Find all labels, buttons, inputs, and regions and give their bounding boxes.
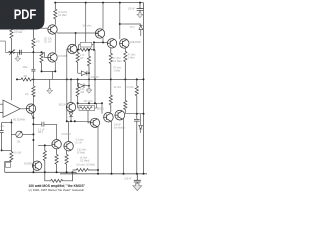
svg-text:BD139: BD139 — [59, 104, 67, 106]
svg-text:220 ohm: 220 ohm — [84, 101, 93, 103]
wire y113 output node — [125, 113, 144, 115]
wire gnd stub under pot — [17, 52, 19, 57]
wire Q10 emitter down — [111, 121, 113, 174]
svg-text:4.7k: 4.7k — [80, 55, 85, 57]
svg-text:MJE15030: MJE15030 — [130, 42, 142, 44]
svg-text:100p: 100p — [23, 67, 29, 69]
transistor Q3 — [107, 39, 116, 48]
node 77 49 — [77, 49, 79, 51]
svg-text:2.2 K ohm: 2.2 K ohm — [14, 29, 25, 31]
node 95 103 — [94, 102, 96, 104]
transistor Q7 — [26, 104, 35, 113]
node top rail junction 4 — [119, 2, 121, 4]
resistor R5 feedback 2k2 — [21, 78, 32, 81]
node 71 121 — [70, 120, 72, 122]
inductor L1 on left bus — [32, 86, 35, 97]
svg-text:1/2 Watt: 1/2 Watt — [14, 31, 23, 34]
transistor Q11 output — [115, 110, 125, 120]
node 44 145 — [44, 144, 46, 146]
wire x102 to Q10 — [101, 103, 103, 113]
capacitor C4 output — [134, 114, 140, 174]
ground bottom — [133, 183, 142, 190]
node mid rail x136 — [136, 78, 138, 80]
svg-text:2k2: 2k2 — [24, 76, 28, 78]
capacitor C2 100p — [31, 69, 35, 71]
wire Q11 emitter down — [123, 119, 125, 174]
node 55 71 — [54, 70, 56, 72]
diode D2 — [78, 79, 89, 88]
wire y121 — [67, 120, 91, 122]
node rail 98b — [97, 173, 99, 175]
wire right edge rail — [143, 3, 145, 174]
node 136 113 — [136, 113, 138, 115]
node rail 56 — [56, 171, 58, 173]
node left bus 140 — [32, 139, 34, 141]
resistor R3 2.2K input — [10, 27, 13, 52]
node mid rail x143 — [143, 78, 145, 80]
box R13 — [79, 106, 95, 111]
svg-text:DC 1W: DC 1W — [44, 41, 52, 43]
capacitor C1 input coupling — [19, 50, 21, 55]
svg-text:47K: 47K — [36, 42, 41, 44]
PDF badge — [0, 0, 45, 30]
node R4 top — [41, 51, 43, 53]
transistor Q1 — [48, 25, 57, 34]
ground x49 — [47, 89, 53, 94]
wire bottom rail step — [75, 172, 77, 174]
wire x95 down — [94, 50, 96, 104]
speaker box — [5, 162, 12, 173]
transistor Q12 — [52, 140, 61, 149]
transistor Q5 — [68, 44, 77, 53]
svg-text:1N4148: 1N4148 — [91, 77, 100, 79]
node 94 49 — [93, 49, 95, 51]
node top rail junction 5 — [139, 2, 141, 4]
wire Q9 emitter down — [97, 127, 99, 174]
wire Q1 emitter down — [54, 34, 56, 53]
wire Q7 down stub — [31, 113, 33, 118]
svg-text:10k: 10k — [17, 142, 22, 144]
svg-text:1 Watt: 1 Watt — [128, 56, 135, 59]
capacitor C5 electrolytic — [0, 123, 4, 151]
svg-text:/1W: /1W — [80, 92, 85, 94]
svg-text:47 ohm: 47 ohm — [126, 87, 134, 89]
node rail 143 — [143, 173, 145, 175]
node rail 72 — [72, 171, 74, 173]
wire left bus upper — [32, 52, 34, 86]
wire Q5 collector up — [75, 33, 77, 45]
trimmer circle — [16, 131, 23, 138]
node 1 150 — [1, 149, 3, 151]
svg-text:3.3 ohm: 3.3 ohm — [76, 140, 84, 142]
node rail 136 — [136, 173, 138, 175]
node mid rail x110 — [110, 78, 112, 80]
capacitor C7 bottom — [134, 174, 141, 184]
svg-text:2.2k: 2.2k — [80, 89, 85, 91]
trimmer arrow — [17, 132, 22, 138]
node mid rail x17 — [16, 78, 18, 80]
wire bottom rail left — [5, 171, 77, 173]
node input bus top — [32, 27, 34, 29]
resistor R15 below rail right — [135, 79, 138, 113]
wire mid rail left — [17, 78, 21, 80]
transistor Q14 — [32, 161, 41, 170]
svg-text:1 Watt: 1 Watt — [114, 69, 121, 72]
node mid rail x66 — [66, 78, 68, 80]
ground input — [15, 57, 20, 62]
zener D5 — [139, 114, 143, 133]
node 41 71 — [41, 70, 43, 72]
wire input line — [5, 51, 44, 53]
wire feedback column lower — [10, 119, 12, 150]
resistor R8 47R — [109, 48, 112, 80]
svg-text:100 ohm: 100 ohm — [83, 26, 92, 28]
wire inverting input column — [10, 52, 12, 100]
resistor R17 1k — [10, 150, 13, 161]
svg-text:47p: 47p — [25, 94, 30, 96]
node top rail junction 1 — [54, 2, 56, 4]
node mid rail x33 — [32, 78, 34, 80]
capacitor C3 rail 100uF — [137, 3, 144, 13]
node 66 121 — [66, 120, 68, 122]
svg-text:100 nF: 100 nF — [124, 179, 132, 181]
svg-text:100 nF: 100 nF — [114, 125, 122, 127]
transistor Q2 — [95, 29, 105, 38]
node mid rail x77 — [77, 78, 79, 80]
svg-text:1/2 Watt: 1/2 Watt — [113, 60, 122, 63]
node rail 44 — [44, 171, 46, 173]
wire y145 to Q12 base — [38, 144, 52, 146]
resistor R12 2.2k lower — [76, 79, 79, 103]
node 74 121 — [74, 120, 76, 122]
wire x68 to Q13 — [68, 121, 70, 141]
svg-text:47 ohm: 47 ohm — [128, 55, 136, 57]
resistor R4 emitter — [40, 52, 43, 71]
svg-text:MJ11016: MJ11016 — [62, 134, 72, 136]
node rail 66 — [66, 171, 68, 173]
node rail 33 — [32, 171, 34, 173]
node input bus mid — [32, 51, 34, 53]
capacitor C6 2.2uF — [33, 122, 56, 127]
node y33 x75 — [75, 32, 77, 34]
transistor Q4 — [120, 39, 129, 48]
svg-text:1/2 Watt: 1/2 Watt — [58, 14, 67, 17]
wire Q5 base bus — [66, 49, 69, 121]
wire bottom rail right — [60, 173, 147, 175]
wire Q2 emitter down — [102, 38, 104, 42]
node 103 42 — [102, 41, 104, 43]
wire zener row — [120, 24, 141, 26]
ground rail cap — [137, 13, 143, 18]
svg-text:1/2 Watt): 1/2 Watt) — [80, 159, 89, 162]
wire Q8 top — [70, 79, 72, 102]
wire to Q6 base — [45, 52, 48, 57]
wire y122 — [2, 122, 12, 124]
resistor R14 above Q10 — [109, 79, 112, 112]
svg-text:15 V: 15 V — [130, 27, 135, 29]
resistor R20 — [65, 151, 68, 173]
svg-text:10 ohm: 10 ohm — [114, 87, 122, 89]
wire y150 — [2, 149, 12, 151]
wire vas line y33 — [57, 32, 98, 34]
node 89 73 — [88, 72, 90, 74]
node mid rail x125 — [124, 78, 126, 80]
diode D1 — [78, 71, 89, 76]
node 89 85 — [88, 85, 90, 87]
node 89 49 — [88, 49, 90, 51]
node left bus 124 — [32, 123, 34, 125]
wire down to mid rail — [52, 71, 54, 79]
svg-text:NE 5534AN: NE 5534AN — [13, 119, 25, 122]
wire x56 to Q12 — [56, 124, 58, 139]
node 89 103 — [88, 102, 90, 104]
node left bus 134 — [32, 133, 34, 135]
trimmer P2 — [11, 133, 15, 135]
svg-text:47 ohm: 47 ohm — [113, 58, 121, 60]
wire gnd stub x49 — [49, 79, 51, 88]
speaker rect — [6, 162, 11, 167]
resistor R2 47K input bias — [32, 28, 35, 52]
wire mid rail main — [32, 78, 144, 80]
potentiometer P1 volume — [9, 50, 15, 55]
node 94 42 — [93, 41, 95, 43]
transistor Q13 — [64, 142, 73, 151]
diode D4 under Q8 — [69, 112, 73, 122]
resistor R7 zigzag under box — [77, 45, 95, 52]
resistor R19 — [55, 149, 58, 172]
svg-text:(5 Watt): (5 Watt) — [77, 151, 85, 154]
wire x85 rail drop — [85, 3, 87, 43]
wire y71 link — [42, 62, 56, 72]
node 11 52 — [10, 51, 12, 53]
node top rail junction 2 — [85, 2, 87, 4]
node 98 170 — [97, 169, 99, 171]
svg-text:PDF: PDF — [14, 7, 37, 22]
svg-text:0.22 ohm: 0.22 ohm — [77, 150, 87, 152]
node 102 103 — [101, 102, 103, 104]
svg-text:1W: 1W — [80, 58, 84, 60]
svg-text:47 ohm: 47 ohm — [114, 68, 122, 70]
resistor R18 — [43, 145, 46, 172]
wire vas emitter row y42 — [94, 42, 107, 49]
svg-text:BC546B: BC546B — [58, 56, 67, 58]
current sense loop — [45, 172, 73, 182]
svg-text:(c) 1992, 1997 Marcel "De Zwar: (c) 1992, 1997 Marcel "De Zwart" Gatowsk… — [29, 188, 85, 192]
node mid rail x71 — [70, 78, 72, 80]
wire top rail V+ — [55, 2, 143, 4]
wire x88 to Q9 — [88, 110, 90, 122]
inductor L2 above Q11 — [124, 79, 127, 113]
node top rail junction 3 — [102, 2, 104, 4]
transistor Q6 — [48, 53, 57, 62]
resistor R11 — [87, 50, 90, 73]
resistor R16 10 ohm — [73, 169, 99, 172]
node left bus 118 — [32, 117, 34, 119]
transistor Q10 output — [104, 112, 114, 122]
svg-text:1k /1W: 1k /1W — [14, 152, 22, 154]
resistor R13 boxed 220 ohm — [78, 102, 102, 104]
node mid rail x95 — [94, 78, 96, 80]
input connector box — [0, 41, 5, 52]
node 77 103 — [77, 102, 79, 104]
resistor R9 47R — [124, 48, 127, 79]
wire x119 drop — [119, 3, 121, 40]
resistor R10 4.7K — [76, 50, 79, 72]
resistor R1 10K collector load — [54, 3, 57, 25]
svg-text:MJ2955: MJ2955 — [24, 164, 33, 166]
svg-text:(5 ohm: (5 ohm — [80, 158, 87, 160]
wire Q1 base to input bus — [33, 27, 47, 29]
svg-text:0.1 uF: 0.1 uF — [76, 142, 83, 144]
wire Q2 collector up — [102, 3, 104, 29]
transistor Q9 output — [90, 118, 99, 127]
zener D3 — [139, 26, 143, 37]
node rail 123 — [123, 173, 125, 175]
node 11 122 — [10, 122, 12, 124]
svg-text:10 Kohm: 10 Kohm — [58, 12, 67, 14]
svg-text:100 uF: 100 uF — [128, 9, 136, 11]
opamp U1 — [0, 100, 26, 117]
node mid rail x89 — [88, 78, 90, 80]
svg-text:MKT: MKT — [38, 132, 43, 134]
svg-text:DC 100: DC 100 — [44, 39, 53, 41]
svg-text:2.2 uF: 2.2 uF — [38, 129, 45, 131]
node 119 24 — [119, 23, 121, 25]
svg-text:(10 ohm 1/2 Watt): (10 ohm 1/2 Watt) — [77, 164, 96, 167]
wire left bus lower — [32, 96, 34, 173]
ground mid — [86, 88, 92, 93]
svg-text:BD911: BD911 — [97, 108, 105, 110]
node rail 111 — [111, 173, 113, 175]
transistor Q8 driver — [66, 102, 75, 111]
node 143 113 — [143, 113, 145, 115]
wire x89 to gnd — [88, 73, 90, 88]
wire trimmer right — [22, 133, 33, 135]
svg-text:47u: 47u — [0, 126, 5, 128]
resistor R6 boxed 220R 1W — [80, 42, 92, 47]
zigzag R13 — [78, 103, 97, 109]
